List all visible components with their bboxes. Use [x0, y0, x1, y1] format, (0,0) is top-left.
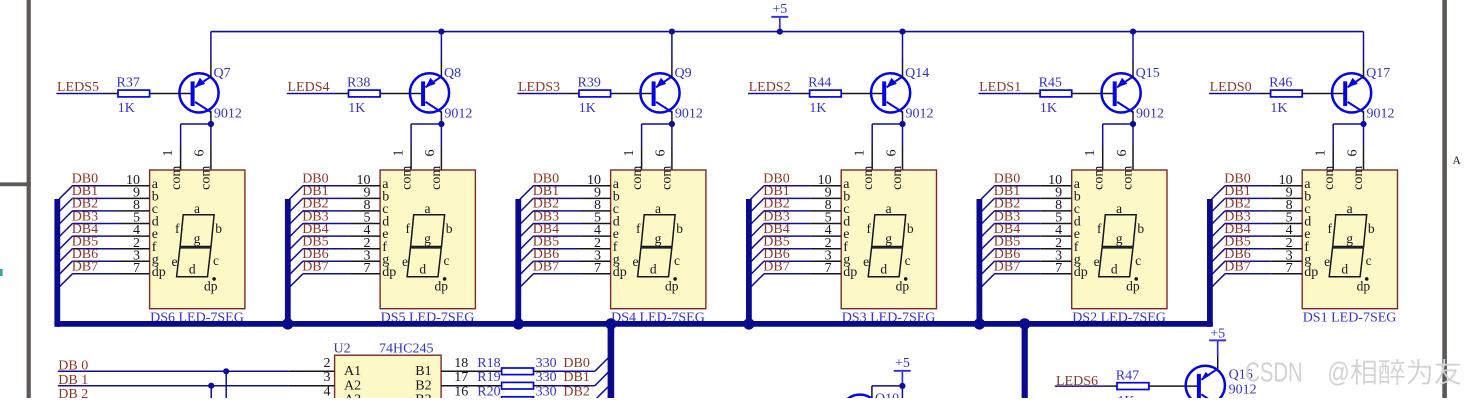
7-segment display DS3 body	[841, 170, 936, 309]
wire DB2 bus entry	[286, 211, 349, 228]
svg-text:1K: 1K	[1040, 101, 1057, 116]
wire collector drop	[210, 112, 212, 124]
node DB5 label	[533, 235, 559, 250]
svg-text:g: g	[1346, 231, 1353, 246]
wire DB1 to bus	[546, 372, 608, 385]
node LEDS1	[979, 80, 1021, 95]
node DB4 label	[763, 222, 789, 237]
bus vertical segment	[54, 199, 60, 327]
wire DB1 bus entry	[517, 198, 580, 215]
svg-text:e: e	[863, 254, 869, 269]
svg-text:7: 7	[133, 261, 140, 276]
svg-text:1K: 1K	[1270, 101, 1287, 116]
wire to com pin 1	[642, 124, 672, 170]
pin B1 (18)	[415, 356, 501, 379]
node collector junction	[208, 121, 214, 127]
svg-text:f: f	[1097, 221, 1102, 236]
wire DB1 bus entry	[747, 198, 810, 215]
wire DB5 bus entry	[286, 249, 349, 266]
bus vertical segment	[746, 199, 752, 327]
resistor R18 330	[477, 356, 556, 375]
pin c (8)	[580, 198, 619, 217]
svg-text:a: a	[194, 201, 200, 216]
node DB4 label	[72, 222, 98, 237]
node DB2 label	[763, 197, 789, 212]
svg-text:1: 1	[161, 150, 176, 157]
pin number 1	[622, 150, 637, 157]
node DB3 label	[763, 209, 789, 224]
label DS6 LED-7SEG	[150, 311, 244, 326]
svg-text:LEDS3: LEDS3	[518, 80, 560, 95]
node DB7 label	[302, 260, 328, 275]
wire DB7 bus entry	[978, 274, 1041, 291]
svg-text:DB7: DB7	[994, 260, 1020, 275]
wire DB3 bus entry	[1208, 224, 1271, 241]
svg-text:d: d	[419, 262, 426, 277]
node DB1 label	[1224, 184, 1250, 199]
wire DB3 bus entry	[978, 224, 1041, 241]
svg-text:com: com	[1091, 166, 1106, 190]
svg-text:CSDN: CSDN	[1245, 357, 1303, 388]
svg-text:f: f	[636, 221, 641, 236]
node DB2 label	[1224, 197, 1250, 212]
power +5 Q10	[894, 356, 911, 386]
svg-text:e: e	[633, 254, 639, 269]
wire DB5 bus entry	[978, 249, 1041, 266]
wire emitter riser	[902, 32, 904, 78]
label DS1 LED-7SEG	[1303, 311, 1397, 326]
pin B3 (16)	[415, 385, 468, 403]
resistor R46 1K	[1259, 75, 1344, 116]
svg-text:f: f	[1328, 221, 1333, 236]
label DS3 LED-7SEG	[842, 311, 936, 326]
pin name com 1	[169, 166, 184, 190]
pin c (8)	[119, 198, 158, 217]
wire DB2 bus entry	[517, 211, 580, 228]
wire DB2 bus entry	[978, 211, 1041, 228]
wire DB3 bus entry	[286, 224, 349, 241]
pin number 6	[884, 150, 899, 157]
svg-text:1K: 1K	[348, 101, 365, 116]
pin b (9)	[580, 186, 620, 205]
svg-text:6: 6	[1345, 150, 1360, 157]
svg-text:com: com	[199, 166, 214, 190]
wire to com pin 1	[872, 124, 902, 170]
transistor Q9 9012 PNP	[640, 66, 703, 121]
wire DB5 bus entry	[1208, 249, 1271, 266]
node DB1 label	[72, 184, 98, 199]
pin e (4)	[119, 223, 158, 242]
resistor R44 1K	[798, 75, 883, 116]
pin a (10)	[119, 173, 159, 192]
svg-text:330: 330	[536, 370, 557, 385]
svg-text:LEDS1: LEDS1	[979, 80, 1021, 95]
wire	[56, 93, 106, 95]
wire DB1 bus entry	[1208, 198, 1271, 215]
svg-text:dp: dp	[665, 279, 679, 294]
svg-text:com: com	[890, 166, 905, 190]
node DB2 label	[994, 197, 1020, 212]
bus vertical segment	[285, 199, 291, 327]
resistor R47 1K	[1105, 369, 1198, 403]
node bus junction x979	[974, 318, 985, 329]
node DB 1 label	[58, 373, 88, 388]
node DB7 label	[1224, 260, 1250, 275]
svg-text:com: com	[1121, 166, 1136, 190]
svg-text:com: com	[400, 166, 415, 190]
svg-text:com: com	[169, 166, 184, 190]
wire DB7 bus entry	[517, 274, 580, 291]
resistor R45 1K	[1028, 75, 1113, 116]
wire DB4 bus entry	[1208, 236, 1271, 253]
svg-text:+5: +5	[895, 356, 910, 371]
left edge teal mark	[0, 269, 3, 276]
pin number 1	[1083, 150, 1098, 157]
svg-text:7: 7	[1055, 261, 1062, 276]
svg-text:7: 7	[825, 261, 832, 276]
svg-text:b: b	[1137, 221, 1144, 236]
wire to com pin 6	[1363, 124, 1365, 170]
wire feed down	[901, 386, 903, 399]
pin name com 6	[199, 166, 214, 190]
wire	[1209, 93, 1259, 95]
wire to com pin 1	[1333, 124, 1363, 170]
wire DB7 bus entry	[56, 274, 119, 291]
node DB0 junction	[223, 368, 229, 398]
pin name com 1	[861, 166, 876, 190]
wire DB0 bus entry	[978, 186, 1041, 203]
pin a (10)	[580, 173, 620, 192]
7-segment display DS1 body	[1302, 170, 1397, 309]
pin a (10)	[1271, 173, 1311, 192]
svg-text:R20: R20	[477, 385, 500, 398]
pin dp (7)	[1271, 261, 1318, 280]
svg-text:a: a	[1347, 201, 1353, 216]
wire DB6 bus entry	[56, 261, 119, 278]
node DB7 label	[994, 260, 1020, 275]
sheet border right vertical	[1442, 0, 1447, 398]
transistor Q14 9012 PNP	[871, 66, 934, 121]
node DB6 label	[763, 247, 789, 262]
7-segment display DS5 body	[380, 170, 475, 309]
wire emitter riser	[1363, 32, 1365, 78]
wire DB6 bus entry	[1208, 261, 1271, 278]
svg-text:+5: +5	[1210, 326, 1225, 341]
watermark CSDN	[1245, 357, 1460, 388]
transistor Q17 9012 PNP	[1332, 66, 1395, 121]
svg-text:4: 4	[324, 385, 331, 398]
pin c (8)	[810, 198, 849, 217]
svg-text:a: a	[886, 201, 892, 216]
svg-text:Q15: Q15	[1136, 66, 1160, 81]
node DB3 label	[994, 209, 1020, 224]
node rail junction x1133	[1130, 29, 1136, 35]
wire DB4 bus entry	[517, 236, 580, 253]
wire to com pin 6	[440, 124, 442, 170]
svg-text:b: b	[215, 221, 222, 236]
svg-text:dp: dp	[204, 279, 218, 294]
wire DB2 bus entry	[747, 211, 810, 228]
svg-text:A2: A2	[344, 378, 361, 393]
svg-text:com: com	[1322, 166, 1337, 190]
pin B2 (17)	[415, 370, 501, 393]
svg-text:DS1 LED-7SEG: DS1 LED-7SEG	[1303, 311, 1397, 326]
wire DB6 bus entry	[747, 261, 810, 278]
svg-text:Q10: Q10	[875, 392, 899, 398]
node DB2 label	[302, 197, 328, 212]
wire to com pin 1	[411, 124, 441, 170]
svg-text:R18: R18	[477, 356, 500, 371]
wire DB3 bus entry	[517, 224, 580, 241]
7-seg glyph	[633, 201, 684, 294]
node DB1 junction	[208, 383, 214, 399]
node DB7 label	[72, 260, 98, 275]
label DS5 LED-7SEG	[381, 311, 475, 326]
sheet border left vertical	[27, 0, 31, 398]
7-segment display DS6 body	[150, 170, 245, 309]
wire DB2 bus entry	[1208, 211, 1271, 228]
wire DB0 bus entry	[56, 186, 119, 203]
wire DB0 to bus	[546, 358, 608, 371]
pin b (9)	[119, 186, 159, 205]
node bus junction x1025	[1019, 318, 1030, 329]
node collector junction	[899, 121, 905, 127]
zone label A	[1453, 155, 1462, 167]
svg-text:R38: R38	[347, 75, 370, 90]
svg-text:16: 16	[454, 385, 468, 398]
svg-text:9012: 9012	[444, 106, 472, 121]
pin c (8)	[1271, 198, 1310, 217]
svg-text:dp: dp	[382, 265, 396, 280]
pin b (9)	[1041, 186, 1081, 205]
pin dp (7)	[810, 261, 857, 280]
node LEDS5	[57, 80, 99, 95]
svg-text:A1: A1	[344, 364, 361, 379]
pin name com 6	[1121, 166, 1136, 190]
pin number 6	[423, 150, 438, 157]
transistor Q7 9012 PNP	[179, 66, 242, 121]
svg-text:LEDS2: LEDS2	[749, 80, 791, 95]
node DB1 label	[533, 184, 559, 199]
pin d (5)	[119, 211, 159, 230]
node collector junction	[1130, 121, 1136, 127]
7-seg glyph	[1324, 201, 1375, 294]
power +5 main	[771, 2, 788, 31]
wire	[979, 93, 1029, 95]
pin f (2)	[1041, 236, 1079, 255]
wire collector drop	[440, 112, 442, 124]
svg-text:dp: dp	[1126, 279, 1140, 294]
svg-text:LEDS5: LEDS5	[57, 80, 99, 95]
wire to com pin 1	[181, 124, 211, 170]
svg-text:d: d	[650, 262, 657, 277]
IC U2 74HC245 body	[335, 355, 442, 403]
svg-text:6: 6	[1115, 150, 1130, 157]
wire DB7 bus entry	[747, 274, 810, 291]
svg-text:f: f	[175, 221, 180, 236]
svg-text:9012: 9012	[1367, 106, 1395, 121]
wire DB5 bus entry	[56, 249, 119, 266]
node DB0 label	[563, 356, 589, 371]
wire	[748, 93, 798, 95]
wire collector drop	[1363, 112, 1365, 124]
svg-text:R46: R46	[1269, 75, 1292, 90]
node DB 2 label	[58, 387, 88, 402]
node DB1 label	[763, 184, 789, 199]
svg-text:a: a	[425, 201, 431, 216]
wire DB2 to bus	[546, 387, 608, 400]
svg-text:com: com	[1351, 166, 1366, 190]
node collector junction	[1360, 121, 1366, 127]
svg-text:330: 330	[536, 385, 557, 398]
pin A1 (2)	[289, 356, 361, 379]
svg-text:DB7: DB7	[302, 260, 328, 275]
svg-text:A: A	[1453, 155, 1462, 167]
wire DB 0	[58, 370, 289, 372]
resistor R37 1K	[106, 75, 191, 116]
node DB0 label	[1224, 172, 1250, 187]
svg-text:LEDS4: LEDS4	[288, 80, 330, 95]
node DB6 label	[72, 247, 98, 262]
pin dp (7)	[580, 261, 627, 280]
svg-text:7: 7	[594, 261, 601, 276]
svg-text:U2: U2	[334, 341, 351, 356]
svg-text:9012: 9012	[675, 106, 703, 121]
pin number 6	[1115, 150, 1130, 157]
svg-text:B1: B1	[415, 364, 431, 379]
node DB0 label	[302, 172, 328, 187]
svg-text:a: a	[1116, 201, 1122, 216]
svg-text:dp: dp	[613, 265, 627, 280]
svg-text:Q8: Q8	[444, 66, 461, 81]
bus vertical segment	[515, 199, 521, 327]
transistor Q10 (partial)	[840, 392, 899, 403]
svg-text:c: c	[905, 253, 911, 268]
pin e (4)	[810, 223, 849, 242]
node rail junction x902	[899, 29, 905, 35]
wire	[517, 93, 567, 95]
node DB4 label	[1224, 222, 1250, 237]
pin b (9)	[1271, 186, 1311, 205]
node rail junction x441	[438, 29, 444, 35]
svg-text:74HC245: 74HC245	[379, 341, 433, 356]
pin number 1	[161, 150, 176, 157]
pin f (2)	[119, 236, 157, 255]
node collector junction	[669, 121, 675, 127]
node DB6 label	[994, 247, 1020, 262]
resistor R19 330	[477, 370, 556, 389]
node LEDS4	[288, 80, 330, 95]
pin d (5)	[810, 211, 850, 230]
pin name com 6	[660, 166, 675, 190]
wire DB4 bus entry	[978, 236, 1041, 253]
wire DB1 bus entry	[286, 198, 349, 215]
svg-text:6: 6	[193, 150, 208, 157]
svg-text:g: g	[424, 231, 431, 246]
node LEDS0	[1210, 80, 1252, 95]
svg-text:1: 1	[1083, 150, 1098, 157]
wire DB0 bus entry	[1208, 186, 1271, 203]
svg-text:dp: dp	[896, 279, 910, 294]
svg-text:b: b	[907, 221, 914, 236]
svg-text:dp: dp	[1304, 265, 1318, 280]
wire to com pin 6	[671, 124, 673, 170]
pin d (5)	[580, 211, 620, 230]
node LEDS6	[1056, 374, 1098, 389]
node +5 rail tap	[777, 29, 783, 35]
wire	[1055, 385, 1105, 387]
svg-text:g: g	[885, 231, 892, 246]
pin name com 1	[1091, 166, 1106, 190]
svg-text:dp: dp	[1074, 265, 1088, 280]
pin g (3)	[1271, 248, 1311, 267]
pin number 6	[1345, 150, 1360, 157]
wire emitter riser	[210, 32, 212, 78]
svg-text:g: g	[1116, 231, 1123, 246]
node DB0 label	[994, 172, 1020, 187]
wire DB0 bus entry	[286, 186, 349, 203]
wire DB 1	[58, 385, 289, 387]
7-segment display DS2 body	[1072, 170, 1167, 309]
wire DB3 bus entry	[56, 224, 119, 241]
pin a (10)	[810, 173, 850, 192]
node DB3 label	[1224, 209, 1250, 224]
svg-text:R39: R39	[578, 75, 601, 90]
svg-text:1: 1	[391, 150, 406, 157]
bus vertical segment	[1207, 199, 1213, 327]
pin g (3)	[349, 248, 389, 267]
transistor Q8 9012 PNP	[410, 66, 473, 121]
node DB1 label	[563, 370, 589, 385]
svg-text:Q14: Q14	[905, 66, 929, 81]
svg-text:1: 1	[1314, 150, 1329, 157]
node rail junction x672	[669, 29, 675, 35]
svg-text:b: b	[446, 221, 453, 236]
svg-text:d: d	[1111, 262, 1118, 277]
bus horizontal main	[54, 321, 1213, 327]
svg-text:1K: 1K	[809, 101, 826, 116]
wire DB5 bus entry	[747, 249, 810, 266]
pin number 6	[193, 150, 208, 157]
svg-text:6: 6	[423, 150, 438, 157]
svg-text:9012: 9012	[906, 106, 934, 121]
svg-text:com: com	[861, 166, 876, 190]
pin number 1	[853, 150, 868, 157]
pin d (5)	[1271, 211, 1311, 230]
wire DB4 bus entry	[56, 236, 119, 253]
wire DB7 bus entry	[1208, 274, 1271, 291]
svg-text:A3: A3	[344, 393, 361, 398]
label U2	[334, 341, 351, 356]
svg-text:f: f	[405, 221, 410, 236]
pin name com 6	[1351, 166, 1366, 190]
node collector junction	[438, 121, 444, 127]
svg-text:9012: 9012	[1136, 106, 1164, 121]
node DB4 label	[533, 222, 559, 237]
node DB0 label	[72, 172, 98, 187]
svg-text:B2: B2	[415, 378, 431, 393]
wire DB3 bus entry	[747, 224, 810, 241]
resistor R38 1K	[337, 75, 422, 116]
svg-text:g: g	[655, 231, 662, 246]
label DS2 LED-7SEG	[1072, 311, 1166, 326]
svg-text:com: com	[429, 166, 444, 190]
pin f (2)	[349, 236, 387, 255]
node DB5 label	[302, 235, 328, 250]
node DB1 label	[994, 184, 1020, 199]
svg-text:e: e	[172, 254, 178, 269]
svg-text:e: e	[1094, 254, 1100, 269]
